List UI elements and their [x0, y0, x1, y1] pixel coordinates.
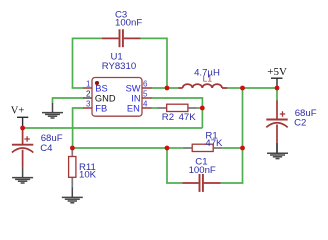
svg-text:100nF: 100nF — [115, 18, 142, 29]
svg-text:3: 3 — [86, 99, 91, 108]
resistor R2 — [157, 104, 197, 111]
pin 3 stub — [83, 107, 92, 109]
junction node +5V — [275, 86, 280, 91]
capacitor C2 — [266, 101, 287, 143]
svg-text:100nF: 100nF — [189, 165, 216, 176]
wire C3 left horizontal — [73, 37, 103, 39]
svg-text:IN: IN — [131, 93, 140, 103]
capacitor C4 — [12, 128, 33, 167]
wire R1 left green — [167, 147, 183, 149]
capacitor C3 — [102, 29, 141, 47]
wire bottom V+ feed — [23, 127, 203, 129]
ground under C2 — [267, 143, 288, 159]
wire SW node to inductor — [152, 87, 178, 89]
wire SW vertical right — [242, 88, 244, 183]
svg-text:+5V: +5V — [267, 66, 287, 78]
resistor R1 — [183, 144, 222, 151]
junction node R1 right — [240, 146, 245, 151]
wire pin4 EN bit — [151, 107, 157, 109]
wire R1 right green — [222, 147, 242, 149]
svg-text:10K: 10K — [79, 169, 97, 180]
ground under C4 — [12, 167, 33, 183]
V+ power flag — [17, 117, 28, 128]
wire inductor to +5V node — [227, 87, 277, 89]
inductor L1 — [178, 84, 227, 88]
ground under R11 — [62, 187, 83, 203]
pin1 marker dot — [95, 81, 99, 85]
svg-text:1: 1 — [86, 79, 91, 88]
svg-text:6: 6 — [143, 79, 148, 88]
junction node SW-C3 — [165, 86, 170, 91]
wire pin2 to ground — [53, 97, 84, 103]
wire R2 right bit — [197, 107, 203, 109]
svg-text:SW: SW — [126, 83, 141, 93]
wire right vertical C3 to SW node — [166, 38, 168, 89]
+5V power flag — [271, 78, 283, 88]
junction node FB-R11 — [70, 146, 75, 151]
svg-text:5: 5 — [143, 89, 148, 98]
svg-text:C4: C4 — [40, 143, 53, 154]
wire FB row horizontal — [73, 147, 167, 149]
pin 5 stub — [142, 97, 152, 99]
svg-text:C2: C2 — [294, 118, 306, 129]
IC U1 box — [92, 78, 142, 117]
wire pin3 FB down — [73, 107, 84, 148]
junction node R1 left — [165, 146, 170, 151]
wire left vertical to pin1 — [72, 38, 74, 89]
svg-text:47K: 47K — [205, 138, 223, 149]
svg-text:FB: FB — [95, 103, 107, 113]
svg-text:GND: GND — [95, 93, 116, 103]
pin 2 stub — [83, 97, 92, 99]
ground near pin2 — [42, 103, 63, 118]
wire +5V node down to C2 — [276, 88, 278, 101]
junction node inductor right — [240, 86, 245, 91]
wire pin1 stub connect — [72, 87, 84, 89]
junction node R2 right — [200, 106, 205, 111]
wire C1 bottom right — [221, 182, 244, 184]
svg-text:4: 4 — [143, 99, 148, 108]
wire C3 right horizontal — [141, 37, 168, 39]
capacitor C1 — [182, 174, 220, 192]
svg-text:V+: V+ — [11, 106, 25, 117]
wire IN loop vertical — [201, 97, 203, 128]
svg-text:2: 2 — [86, 89, 91, 98]
junction node V+ — [20, 126, 25, 131]
pin 6 stub — [142, 87, 152, 89]
svg-text:BS: BS — [95, 83, 107, 93]
pin 1 stub — [83, 87, 92, 89]
wire C1 bottom left — [166, 182, 182, 184]
svg-text:4.7µH: 4.7µH — [194, 67, 220, 78]
svg-text:RY8310: RY8310 — [102, 61, 137, 72]
pin 4 stub — [142, 107, 152, 109]
svg-text:R2: R2 — [162, 112, 174, 123]
svg-text:47K: 47K — [179, 112, 197, 123]
wire C1 left vertical — [166, 148, 168, 183]
resistor R11 — [69, 148, 76, 187]
svg-text:EN: EN — [127, 103, 140, 113]
wire pin5 IN loop right — [152, 97, 202, 99]
